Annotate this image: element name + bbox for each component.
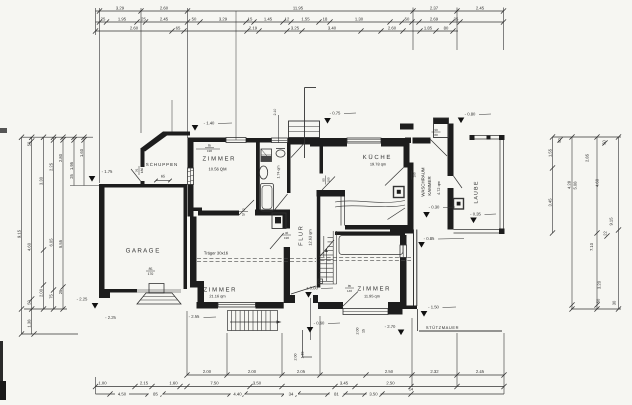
svg-text:50: 50 [557, 138, 562, 143]
svg-text:- 0.80: - 0.80 [465, 112, 476, 117]
svg-text:4.28: 4.28 [566, 180, 571, 189]
svg-text:1.60: 1.60 [79, 148, 84, 157]
svg-text:G A R A G E: G A R A G E [126, 248, 160, 255]
svg-text:65: 65 [176, 25, 181, 30]
svg-text:9.15: 9.15 [16, 229, 21, 238]
svg-text:75: 75 [242, 207, 246, 211]
svg-text:2.50: 2.50 [385, 369, 394, 374]
svg-text:3.29: 3.29 [116, 5, 125, 10]
svg-text:50: 50 [595, 298, 600, 303]
svg-text:80: 80 [321, 178, 325, 182]
svg-text:L A U B E: L A U B E [474, 181, 480, 204]
svg-text:190: 190 [413, 172, 417, 177]
svg-text:1.85: 1.85 [424, 25, 433, 30]
svg-text:2.45: 2.45 [476, 5, 485, 10]
svg-text:- 0.85: - 0.85 [424, 236, 435, 241]
svg-text:190: 190 [207, 149, 212, 153]
svg-text:85: 85 [153, 391, 158, 396]
svg-text:75: 75 [135, 169, 139, 173]
svg-text:± 0.00: ± 0.00 [306, 286, 318, 291]
svg-text:Z I M M E R: Z I M M E R [204, 287, 237, 294]
svg-text:50: 50 [27, 300, 32, 305]
svg-text:2.69: 2.69 [430, 16, 439, 21]
svg-text:7.10: 7.10 [589, 242, 594, 251]
svg-text:- 1.50: - 1.50 [428, 305, 439, 310]
svg-text:6.05: 6.05 [48, 238, 53, 247]
svg-text:2.37: 2.37 [430, 5, 439, 10]
svg-text:81: 81 [334, 391, 339, 396]
svg-text:18: 18 [323, 16, 328, 21]
svg-text:- 0.30: - 0.30 [429, 205, 440, 210]
svg-text:3.45: 3.45 [547, 198, 552, 207]
svg-text:1.60: 1.60 [169, 380, 178, 385]
svg-text:85: 85 [208, 144, 212, 148]
svg-text:170: 170 [148, 272, 154, 276]
svg-text:15: 15 [362, 329, 366, 333]
svg-text:80: 80 [434, 133, 438, 137]
svg-text:190: 190 [284, 236, 289, 240]
svg-text:25: 25 [69, 174, 74, 179]
svg-text:25: 25 [141, 16, 146, 21]
svg-text:11.95 qm: 11.95 qm [364, 294, 380, 299]
svg-text:2.05: 2.05 [297, 369, 306, 374]
svg-text:1.55: 1.55 [547, 148, 552, 157]
svg-text:25: 25 [101, 16, 106, 21]
svg-text:9.15: 9.15 [608, 217, 613, 226]
svg-text:- 2.25: - 2.25 [105, 315, 116, 320]
svg-text:2.32: 2.32 [430, 369, 439, 374]
svg-text:1.95: 1.95 [69, 161, 74, 170]
svg-text:- 2.55: - 2.55 [189, 314, 200, 319]
svg-text:90: 90 [434, 128, 438, 132]
svg-text:34: 34 [289, 391, 294, 396]
svg-text:85: 85 [348, 284, 352, 288]
svg-text:2.00: 2.00 [248, 369, 257, 374]
svg-text:25: 25 [242, 213, 246, 217]
svg-text:1.15: 1.15 [301, 352, 305, 359]
svg-text:- 0.60: - 0.60 [314, 321, 325, 326]
svg-text:3.25: 3.25 [291, 25, 300, 30]
svg-text:2.25: 2.25 [48, 162, 53, 171]
svg-text:2.00: 2.00 [38, 288, 43, 297]
svg-text:2.00: 2.00 [203, 369, 212, 374]
svg-text:3.30: 3.30 [38, 176, 43, 185]
svg-text:80: 80 [444, 25, 449, 30]
svg-text:3.20: 3.20 [596, 280, 601, 289]
svg-text:STÜTZMAUER: STÜTZMAUER [426, 325, 459, 330]
svg-text:Träger 30x16: Träger 30x16 [204, 251, 229, 256]
svg-text:3.50: 3.50 [369, 391, 378, 396]
svg-text:- 2.70: - 2.70 [385, 324, 396, 329]
svg-text:10.56 QM: 10.56 QM [209, 167, 228, 172]
svg-text:3.50: 3.50 [253, 380, 262, 385]
svg-text:- 0.35: - 0.35 [470, 212, 481, 217]
svg-text:1.55: 1.55 [301, 16, 310, 21]
svg-text:12.63 qm: 12.63 qm [308, 229, 313, 245]
svg-text:75: 75 [48, 294, 53, 299]
svg-text:2.00: 2.00 [356, 328, 360, 335]
svg-text:WASCHRAUM: WASCHRAUM [421, 167, 426, 196]
svg-text:30: 30 [611, 300, 616, 305]
svg-text:22: 22 [602, 231, 607, 236]
svg-text:- 1.40: - 1.40 [204, 121, 215, 126]
svg-text:- 0.75: - 0.75 [330, 111, 341, 116]
svg-text:50: 50 [192, 16, 197, 21]
svg-text:19.78 qm: 19.78 qm [370, 162, 386, 167]
svg-text:2.00: 2.00 [294, 354, 298, 361]
svg-text:3.40: 3.40 [328, 25, 337, 30]
svg-text:2.10: 2.10 [273, 109, 277, 116]
svg-text:25: 25 [58, 289, 63, 294]
svg-text:14: 14 [409, 388, 413, 392]
svg-text:35: 35 [454, 16, 459, 21]
svg-text:21.16 qm: 21.16 qm [209, 294, 225, 299]
svg-text:4.60: 4.60 [27, 242, 32, 251]
svg-text:140: 140 [347, 289, 352, 293]
svg-text:65: 65 [161, 175, 165, 179]
svg-text:50: 50 [601, 140, 606, 145]
svg-text:4.40: 4.40 [233, 391, 242, 396]
svg-text:5.55: 5.55 [58, 239, 63, 248]
svg-text:4.72 qm: 4.72 qm [437, 181, 441, 195]
svg-text:2.60: 2.60 [130, 25, 139, 30]
svg-text:180: 180 [140, 168, 144, 174]
svg-text:2.45: 2.45 [160, 16, 169, 21]
svg-text:190: 190 [327, 177, 331, 182]
svg-text:2.45: 2.45 [476, 369, 485, 374]
svg-text:3.45: 3.45 [340, 380, 349, 385]
svg-text:1.38: 1.38 [27, 319, 32, 328]
svg-text:1.74 qm: 1.74 qm [277, 166, 281, 179]
svg-text:2.19: 2.19 [249, 25, 258, 30]
svg-text:15: 15 [248, 16, 253, 21]
svg-text:80: 80 [407, 173, 411, 177]
svg-text:50: 50 [405, 16, 410, 21]
svg-text:SCHUPPEN: SCHUPPEN [146, 162, 178, 167]
svg-text:12: 12 [285, 16, 290, 21]
svg-text:KAMMER: KAMMER [427, 176, 432, 195]
svg-text:1.30: 1.30 [355, 16, 364, 21]
svg-text:1.00: 1.00 [98, 380, 107, 385]
svg-text:K Ü C H E: K Ü C H E [363, 153, 391, 161]
svg-text:2.15: 2.15 [140, 380, 149, 385]
svg-text:3.29: 3.29 [219, 16, 228, 21]
svg-text:2.60: 2.60 [388, 25, 397, 30]
svg-text:1.45: 1.45 [264, 16, 273, 21]
svg-text:50: 50 [27, 141, 32, 146]
svg-text:7.50: 7.50 [210, 380, 219, 385]
svg-text:Z I M M E R: Z I M M E R [203, 156, 236, 163]
svg-text:F L U R: F L U R [299, 226, 305, 246]
svg-text:- 2.25: - 2.25 [77, 297, 88, 302]
svg-text:5.08: 5.08 [572, 181, 577, 190]
svg-text:2.50: 2.50 [386, 380, 395, 385]
svg-text:11.95: 11.95 [293, 5, 304, 10]
svg-text:2.60: 2.60 [160, 5, 169, 10]
svg-text:1.95: 1.95 [118, 16, 127, 21]
svg-text:85: 85 [149, 267, 153, 271]
svg-text:2.80: 2.80 [58, 153, 63, 162]
svg-text:Z I M M E R: Z I M M E R [358, 286, 391, 293]
svg-text:- 1.75: - 1.75 [102, 169, 113, 174]
svg-text:4.60: 4.60 [594, 178, 599, 187]
svg-text:4.50: 4.50 [118, 391, 127, 396]
svg-text:2.85: 2.85 [584, 153, 589, 162]
svg-text:40: 40 [285, 231, 289, 235]
